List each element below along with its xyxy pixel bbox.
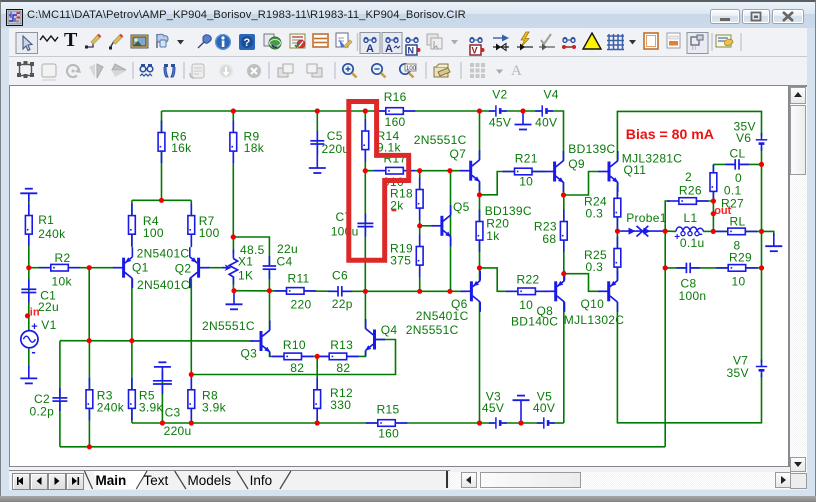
node out bbox=[714, 205, 731, 217]
svg-text:RL: RL bbox=[730, 214, 746, 228]
toolbar button select mode (active) bbox=[16, 33, 38, 54]
wire R26 to R27 node bbox=[696, 200, 714, 202]
capacitor C2 bbox=[30, 388, 68, 419]
wire top rail to Q9 collector bbox=[548, 111, 564, 161]
toolbar toggle select box (active) bbox=[687, 33, 708, 54]
svg-text:100u: 100u bbox=[331, 225, 359, 239]
capacitor C6 bbox=[328, 269, 353, 312]
canvas bbox=[9, 85, 789, 467]
svg-text:X1: X1 bbox=[238, 255, 253, 269]
resistor R6 bbox=[158, 121, 192, 164]
capacitor C7 bbox=[331, 210, 374, 239]
transistor Q2 bbox=[175, 247, 209, 288]
resistor R22 bbox=[506, 272, 548, 312]
toolbar icon go to flag (disabled) bbox=[219, 64, 233, 78]
resistor R15 bbox=[366, 403, 408, 441]
toolbar toggle pin connections bbox=[562, 38, 576, 50]
wire R9 node to C4 bbox=[233, 237, 269, 266]
wire bottom return rail bbox=[60, 446, 665, 448]
wire R21 to Q9 base bbox=[532, 171, 546, 173]
svg-text:10k: 10k bbox=[52, 274, 73, 288]
toolbar icon component info bbox=[716, 35, 733, 47]
ground at V1 bbox=[20, 366, 37, 383]
resistor R27 labels bbox=[721, 184, 744, 211]
transistor Q5 bbox=[431, 200, 469, 246]
wire Q4 collector bbox=[364, 291, 366, 329]
svg-text:160: 160 bbox=[378, 427, 399, 441]
wire Q8 emitter node to Q10 base bbox=[564, 274, 599, 292]
source V1 bbox=[21, 318, 57, 359]
resistor R26 labels bbox=[679, 170, 702, 198]
svg-text:0.3: 0.3 bbox=[586, 260, 604, 274]
wire C5 column bbox=[316, 111, 318, 156]
svg-text:R13: R13 bbox=[330, 338, 353, 352]
wire R18-R19 column bbox=[419, 171, 421, 292]
inductor L1 bbox=[674, 211, 704, 250]
svg-text:R21: R21 bbox=[515, 152, 538, 166]
svg-text:82: 82 bbox=[336, 361, 350, 375]
toolbar icon attribute form bbox=[290, 34, 305, 48]
wire Q8 emitter stub bbox=[563, 274, 565, 281]
svg-text:in: in bbox=[30, 307, 40, 319]
capacitor C1 bbox=[21, 279, 59, 314]
resistor R4 bbox=[129, 204, 164, 247]
toolbar toggle currents bbox=[493, 35, 509, 51]
wire Q6 emitter stub bbox=[479, 268, 481, 281]
resistor R27 bbox=[710, 164, 717, 203]
svg-text:A: A bbox=[385, 43, 393, 55]
svg-text:T: T bbox=[64, 29, 78, 51]
svg-text:0.3: 0.3 bbox=[586, 207, 604, 221]
svg-text:240k: 240k bbox=[97, 400, 125, 414]
toolbar toggle node names bbox=[406, 38, 421, 56]
svg-text:3.9k: 3.9k bbox=[139, 400, 164, 414]
wire RL to bus bbox=[745, 230, 761, 232]
svg-text:Q1: Q1 bbox=[132, 261, 149, 275]
wire mid row to Q6 base bbox=[365, 290, 462, 292]
svg-text:R15: R15 bbox=[377, 403, 400, 417]
wire right bus V6 to V7 bbox=[761, 148, 763, 363]
wire R20 column bbox=[479, 195, 481, 268]
toolbar icon bring front (disabled) bbox=[278, 64, 293, 77]
toolbar icon find bbox=[164, 64, 175, 77]
svg-text:V2: V2 bbox=[492, 88, 507, 102]
svg-text:?: ? bbox=[244, 37, 251, 49]
wire Q7 emitter to node bbox=[479, 181, 481, 195]
toolbar icon flip horizontal (disabled) bbox=[89, 64, 103, 78]
svg-text:40V: 40V bbox=[535, 116, 557, 130]
red annotation box around R14/R17 bbox=[349, 102, 409, 261]
wire V7 bottom to Q10 collector bbox=[617, 302, 761, 423]
ground at X1 bbox=[226, 291, 243, 309]
svg-text:R26: R26 bbox=[679, 183, 702, 197]
svg-text:C4: C4 bbox=[277, 255, 293, 269]
wire Q9 emitter stub bbox=[563, 182, 565, 195]
capacitor C3 bbox=[153, 371, 192, 438]
toolbar icon select region (active-ish) bbox=[17, 61, 34, 78]
wire R13 to Q4 emitter bbox=[347, 351, 366, 357]
wire R3 column bbox=[88, 341, 90, 447]
toolbar icon send back (disabled) bbox=[307, 64, 322, 77]
wire Q9 emitter to Q11 base bbox=[564, 172, 600, 196]
resistor R18 bbox=[390, 178, 423, 221]
application icon bbox=[6, 9, 23, 26]
svg-text:R1: R1 bbox=[38, 213, 54, 227]
wire CL left lead row bbox=[713, 163, 734, 165]
svg-text:V1: V1 bbox=[41, 318, 56, 332]
svg-text:0.2p: 0.2p bbox=[30, 405, 55, 419]
probe Probe1 bbox=[620, 211, 667, 236]
toolbars bbox=[9, 28, 807, 85]
ground at top rail V2/V4 bbox=[515, 111, 532, 130]
wire C2 column bbox=[59, 341, 61, 447]
svg-text:330: 330 bbox=[330, 398, 351, 412]
resistor R24 bbox=[584, 186, 621, 229]
toolbar icon wire mode bbox=[85, 35, 101, 49]
resistor RL bbox=[716, 214, 758, 252]
wire R27 column bbox=[712, 164, 714, 231]
resistor R2 bbox=[39, 251, 81, 289]
toolbar icon find text bbox=[140, 64, 153, 76]
svg-text:Q5: Q5 bbox=[453, 200, 470, 214]
resistor R20 bbox=[476, 210, 509, 253]
wire R5 column bbox=[131, 341, 133, 423]
svg-text:Probe1: Probe1 bbox=[626, 211, 667, 225]
svg-text:220u: 220u bbox=[164, 424, 192, 438]
wire R4 column bbox=[131, 200, 133, 247]
svg-text:40V: 40V bbox=[533, 401, 555, 415]
vertical scrollbar bbox=[790, 87, 807, 473]
svg-text:18k: 18k bbox=[244, 141, 265, 155]
red tick near 2k bbox=[392, 209, 397, 211]
resistor R23 bbox=[534, 210, 567, 253]
svg-text:Q4: Q4 bbox=[381, 323, 398, 337]
wire L1 right to out node bbox=[703, 230, 713, 232]
resistor R26 bbox=[667, 198, 709, 205]
battery V6 bbox=[734, 119, 768, 150]
transistor Q10 bbox=[564, 271, 624, 327]
wire node to R22 bbox=[480, 268, 519, 291]
toolbar icon help bbox=[239, 34, 255, 50]
svg-text:C3: C3 bbox=[165, 406, 181, 420]
node in bbox=[30, 307, 40, 319]
svg-text:V6: V6 bbox=[736, 131, 751, 145]
transistor Q11 bbox=[599, 151, 683, 192]
svg-text:0.1u: 0.1u bbox=[680, 236, 705, 250]
svg-text:V4: V4 bbox=[544, 88, 559, 102]
svg-text:2: 2 bbox=[685, 170, 692, 184]
wire R29 to bus bbox=[746, 267, 762, 269]
resistor R7 bbox=[188, 204, 220, 247]
svg-text:375: 375 bbox=[390, 254, 411, 268]
wire Q2 collector column bbox=[190, 278, 192, 374]
toolbar icon zoom in bbox=[343, 64, 357, 78]
svg-text:N: N bbox=[408, 46, 415, 56]
resistor R8 bbox=[188, 378, 227, 421]
svg-text:45V: 45V bbox=[489, 116, 511, 130]
svg-text:V: V bbox=[472, 46, 478, 56]
toolbar icon component mode bbox=[40, 36, 58, 41]
svg-text:8: 8 bbox=[734, 238, 741, 252]
svg-text:220u: 220u bbox=[322, 142, 350, 156]
toolbar icon zoom out bbox=[372, 64, 386, 78]
svg-text:Q10: Q10 bbox=[581, 297, 605, 311]
transistor Q3 bbox=[202, 319, 270, 361]
toolbar toggle attribute text (on) bbox=[360, 33, 380, 56]
svg-text:2N5551C: 2N5551C bbox=[414, 133, 467, 147]
capacitor C8 bbox=[676, 263, 706, 303]
svg-text:BD139C: BD139C bbox=[568, 142, 615, 156]
svg-text:R29: R29 bbox=[729, 250, 752, 264]
svg-text:10: 10 bbox=[519, 298, 533, 312]
toolbar icon zoom 100 bbox=[400, 64, 417, 78]
resistor R16 bbox=[374, 90, 416, 129]
wire R17 row to Q7 base bbox=[365, 170, 462, 172]
wire Q7 collector bbox=[479, 111, 481, 160]
wire Q3 emitter to R10 bbox=[270, 352, 285, 356]
wire R14-C7 column bbox=[364, 111, 366, 291]
toolbar icon open folder bbox=[434, 64, 450, 77]
wire R1 column bbox=[28, 194, 30, 268]
resistor R29 bbox=[716, 250, 758, 288]
toolbar dropdown (disabled) bbox=[451, 40, 458, 45]
svg-text:Bias = 80 mA: Bias = 80 mA bbox=[626, 126, 714, 142]
model label BD139C near R20 bbox=[485, 204, 532, 218]
capacitor CL bbox=[725, 146, 749, 185]
toolbar icon pin bbox=[198, 35, 211, 48]
ground at bottom rail V3/V5 bbox=[513, 396, 530, 423]
toolbar icon warning triangle bbox=[583, 33, 601, 49]
wire out node to RL bbox=[713, 230, 728, 232]
wire C8 left bbox=[665, 267, 686, 269]
transistor Q1 bbox=[113, 247, 190, 293]
toolbar icon repeat last find (disabled) bbox=[190, 64, 204, 78]
wire R18 junction to Q5 base bbox=[420, 225, 434, 227]
resistor R19 bbox=[390, 235, 423, 278]
wire V1 to ground bbox=[28, 348, 30, 369]
svg-text:1k: 1k bbox=[486, 229, 500, 243]
toolbar icon flag/shapes bbox=[157, 34, 168, 48]
toolbar icon flip vertical (disabled) bbox=[112, 64, 126, 77]
wire RL ground stub bbox=[762, 231, 774, 236]
svg-text:C6: C6 bbox=[332, 269, 348, 283]
toolbar icon title block bbox=[667, 33, 680, 48]
svg-text:2N5551C: 2N5551C bbox=[406, 323, 459, 337]
wire top rail between V2 and V4 bbox=[502, 110, 541, 112]
toolbar icon grid bbox=[607, 34, 624, 50]
svg-text:100: 100 bbox=[406, 66, 417, 72]
wire input node column bbox=[88, 268, 90, 341]
svg-text:R2: R2 bbox=[55, 251, 71, 265]
wire R6 column bbox=[161, 111, 163, 200]
toolbar toggle voltages bbox=[470, 38, 485, 56]
transistor Q9 bbox=[544, 142, 615, 192]
transistor Q4 bbox=[365, 319, 458, 356]
svg-text:+: + bbox=[31, 321, 37, 333]
svg-text:Text: Text bbox=[144, 473, 169, 488]
resistor R9 bbox=[230, 121, 265, 164]
wire second-stage rail y374 bbox=[191, 340, 395, 375]
wire Q6 collector column bbox=[479, 302, 481, 423]
wire L1 left bbox=[665, 230, 676, 232]
wire R22 to Q8 base bbox=[535, 290, 546, 292]
svg-text:R11: R11 bbox=[288, 272, 310, 286]
wire Q3 collector column bbox=[269, 291, 271, 331]
svg-text:Q2: Q2 bbox=[175, 261, 192, 275]
svg-text:240k: 240k bbox=[38, 227, 66, 241]
svg-text:10: 10 bbox=[519, 175, 533, 189]
svg-text:MJL1302C: MJL1302C bbox=[564, 313, 624, 327]
svg-text:220: 220 bbox=[291, 297, 312, 311]
toolbar icon info bbox=[215, 34, 231, 50]
wire R10-R13 junction row bbox=[301, 355, 330, 357]
battery V2 bbox=[489, 88, 511, 130]
svg-text:100: 100 bbox=[199, 226, 220, 240]
toolbar icon edit page bbox=[336, 33, 352, 48]
svg-text:Main: Main bbox=[96, 473, 127, 488]
toolbar icon graphics/picture bbox=[131, 35, 148, 48]
ground above C3 bbox=[154, 362, 171, 381]
svg-text:1K: 1K bbox=[238, 268, 253, 282]
resistor R5 bbox=[129, 378, 164, 421]
toolbar icon rotate (disabled) bbox=[67, 65, 81, 77]
svg-text:Q3: Q3 bbox=[241, 347, 258, 361]
svg-text:Q9: Q9 bbox=[568, 157, 585, 171]
horizontal scrollbar bbox=[450, 472, 790, 490]
svg-text:-: - bbox=[31, 344, 35, 359]
wire bottom rail between V3 and V5 bbox=[502, 422, 542, 424]
wire C6 to node bbox=[342, 290, 365, 292]
window buttons bbox=[710, 9, 740, 24]
svg-text:0: 0 bbox=[735, 171, 742, 185]
wire R9 column bbox=[232, 111, 234, 237]
svg-text:22u: 22u bbox=[38, 300, 59, 314]
wire feedback row y340 bbox=[60, 340, 253, 342]
battery V5 bbox=[533, 389, 555, 428]
wire C3 column bbox=[161, 380, 163, 423]
wire R7 column bbox=[190, 200, 192, 247]
transistor Q8 bbox=[511, 271, 565, 329]
toolbar icon text mode bbox=[64, 29, 78, 51]
tab strip bbox=[9, 467, 450, 490]
schematic canvas bbox=[10, 86, 788, 466]
svg-text:A: A bbox=[366, 43, 374, 55]
wire V5 to Q8 collector corner bbox=[550, 422, 564, 424]
svg-text:Q7: Q7 bbox=[450, 147, 467, 161]
frames bbox=[0, 28, 9, 490]
toolbar icon font (disabled) bbox=[511, 63, 522, 79]
svg-text:A: A bbox=[511, 63, 522, 79]
resistor R21 bbox=[503, 152, 545, 189]
battery V4 bbox=[535, 88, 559, 130]
battery V7 bbox=[727, 353, 768, 380]
wire X1 column top bbox=[232, 237, 234, 254]
svg-text:CL: CL bbox=[730, 146, 746, 160]
svg-text:L1: L1 bbox=[684, 211, 698, 225]
toolbar icon component link bbox=[264, 34, 281, 49]
resistor R10 bbox=[272, 338, 314, 375]
wire Q5 collector-emitter column bbox=[450, 171, 452, 292]
svg-text:R22: R22 bbox=[517, 272, 540, 286]
wire C8 to R29 bbox=[690, 267, 728, 269]
toolbar icon diagonal wire mode bbox=[109, 35, 123, 50]
toolbar toggle node numbers (on) bbox=[382, 33, 402, 56]
ground at RL bbox=[765, 233, 782, 251]
toolbar dropdown arrow bbox=[177, 40, 184, 45]
ground at C5 bbox=[309, 144, 326, 173]
resistor R14 bbox=[362, 119, 402, 162]
svg-text:45V: 45V bbox=[482, 401, 504, 415]
svg-text:2N5401C: 2N5401C bbox=[137, 247, 190, 261]
wire C4 bottom bbox=[268, 271, 270, 291]
wire R8 column bbox=[190, 375, 192, 424]
svg-text:16k: 16k bbox=[171, 141, 192, 155]
toolbar icon region box (disabled) bbox=[42, 64, 56, 80]
resistor R3 bbox=[86, 378, 125, 421]
wire X1 bottom row bbox=[234, 290, 287, 292]
toolbar dropdown grid bbox=[629, 40, 636, 45]
toolbar icon grid pattern (disabled) bbox=[470, 63, 485, 78]
ground above R1 bbox=[20, 189, 37, 202]
toolbar icon copy properties (disabled) bbox=[427, 34, 442, 49]
svg-text:BD139C: BD139C bbox=[485, 204, 532, 218]
battery V3 bbox=[482, 389, 507, 428]
svg-text:0.1: 0.1 bbox=[724, 184, 742, 198]
wire R23 column bbox=[563, 195, 565, 274]
svg-text:160: 160 bbox=[385, 115, 406, 129]
resistor R17 bbox=[374, 152, 416, 189]
svg-text:2N5401C: 2N5401C bbox=[416, 309, 469, 323]
wire X1 column bottom bbox=[232, 277, 234, 291]
svg-text:Models: Models bbox=[188, 473, 232, 488]
wire Q7 node to R21 bbox=[480, 172, 516, 195]
wire Q1 collector column bbox=[131, 278, 133, 340]
toolbar icon border bbox=[644, 33, 658, 49]
svg-text:22p: 22p bbox=[332, 297, 353, 311]
svg-text:2N5551C: 2N5551C bbox=[202, 319, 255, 333]
resistor R12 bbox=[314, 378, 353, 421]
toolbar toggle conditions bbox=[539, 34, 555, 51]
svg-text:82: 82 bbox=[290, 361, 304, 375]
transistor Q7 bbox=[414, 133, 480, 191]
svg-text:R10: R10 bbox=[283, 338, 306, 352]
wire C1-V1 column bbox=[28, 268, 30, 331]
wire R11 to C6 bbox=[304, 290, 338, 292]
wire C8 node column to bottom rail bbox=[664, 231, 666, 447]
toolbar icon clear search (disabled) bbox=[247, 64, 261, 78]
capacitor C5 bbox=[310, 129, 349, 156]
wire R4-R7 top row bbox=[132, 199, 191, 201]
svg-text:10: 10 bbox=[732, 274, 746, 288]
resistor R25 bbox=[584, 237, 621, 280]
wire R12 column bbox=[316, 356, 318, 423]
svg-text:2N5401C: 2N5401C bbox=[137, 278, 190, 292]
svg-text:100: 100 bbox=[143, 226, 164, 240]
svg-text:68: 68 bbox=[542, 232, 556, 246]
wire Q8 collector column bbox=[563, 302, 565, 423]
toolbar dropdown row2 bbox=[496, 70, 503, 75]
svg-text:3.9k: 3.9k bbox=[202, 400, 227, 414]
wire node to R26 corner bbox=[665, 201, 670, 231]
svg-text:Info: Info bbox=[250, 473, 273, 488]
svg-text:C5: C5 bbox=[327, 129, 343, 143]
svg-text:out: out bbox=[714, 205, 731, 217]
resistor R13 bbox=[317, 338, 359, 375]
transistor Q6 bbox=[416, 271, 480, 323]
potentiometer X1 bbox=[223, 243, 265, 285]
svg-text:35V: 35V bbox=[727, 366, 749, 380]
resistor R1 bbox=[25, 204, 66, 247]
